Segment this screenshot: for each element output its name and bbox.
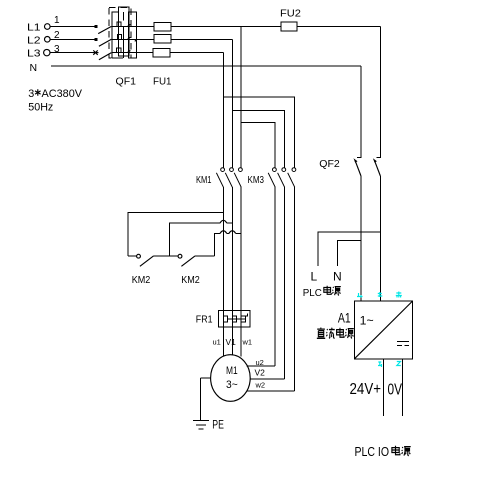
wire drop V2 (L2 phase)	[231, 39, 233, 167]
svg-text:KM3: KM3	[248, 174, 265, 186]
wire V3 branch to KM3 left pole	[241, 123, 275, 168]
svg-text:3: 3	[54, 44, 60, 55]
wire KM1 pole2 down to FR1	[231, 187, 233, 310]
node L1	[27, 22, 50, 34]
svg-text:1~: 1~	[360, 314, 374, 328]
svg-text:24V+: 24V+	[350, 381, 382, 398]
label PLC dian-yuan	[303, 286, 341, 299]
svg-text:50Hz: 50Hz	[28, 102, 53, 114]
svg-text:V1: V1	[226, 337, 237, 347]
svg-text:PLC IO: PLC IO	[355, 444, 390, 459]
contactor KM3 pole 2	[278, 168, 286, 187]
wire L3 to QF1	[50, 50, 99, 54]
wire FR1 pass-through	[223, 310, 241, 327]
motor M1	[211, 355, 251, 402]
cyan pin mark L top	[357, 293, 363, 298]
wire L1 row to FU2 and QF2	[171, 26, 380, 28]
svg-text:3: 3	[28, 88, 34, 100]
svg-text:u2: u2	[256, 358, 264, 367]
wire A1 out 24V	[382, 359, 384, 416]
wire L branch to PLC	[318, 232, 381, 266]
thermal relay FR1 box	[218, 310, 250, 326]
breaker QF2 pole L (N side)	[354, 66, 362, 301]
cyan pin mark N top	[378, 292, 383, 297]
svg-text:L: L	[311, 269, 318, 283]
svg-text:QF1: QF1	[116, 76, 137, 88]
node L3	[27, 48, 50, 60]
svg-text:u1: u1	[213, 338, 221, 347]
wire V1 branch to KM3 right pole	[223, 97, 294, 167]
svg-text:1: 1	[54, 15, 60, 26]
wire drop V3 (L1 phase)	[240, 27, 242, 168]
svg-text:w1: w1	[242, 338, 253, 347]
contactor KM1 pole 3	[234, 168, 242, 187]
wire FR1 to motor w1	[240, 327, 242, 357]
node L2	[27, 35, 50, 47]
svg-text:M1: M1	[226, 365, 238, 377]
svg-text:0V: 0V	[388, 382, 403, 399]
wire KM3 pole3 down to motor w2	[294, 187, 296, 391]
svg-text:w2: w2	[255, 381, 266, 390]
power supply A1 box	[354, 301, 412, 359]
wire N branch to PLC	[338, 240, 361, 266]
svg-text:KM1: KM1	[196, 174, 212, 186]
wire KM1 pole3 down to FR1	[240, 187, 242, 310]
contact KM2 left	[128, 254, 178, 266]
svg-text:L2: L2	[27, 35, 41, 47]
fuse FU1 pole 2	[154, 34, 171, 42]
wire motor v2	[250, 378, 285, 380]
wire A1 out 0V	[402, 359, 404, 416]
label PLC IO dian-yuan	[355, 444, 411, 459]
wire L2 row	[171, 38, 232, 40]
breaker QF1	[98, 7, 154, 60]
cyan pin mark 24V	[378, 362, 382, 367]
FR1 heater element 1	[223, 316, 227, 322]
wire L2 to QF1	[50, 38, 97, 41]
contactor KM3 pole 1	[268, 168, 276, 187]
svg-text:3~: 3~	[226, 379, 238, 391]
contactor KM1 pole 1	[216, 168, 224, 187]
wire KM3 pole1 down to motor u2	[274, 187, 276, 366]
wire motor w2	[247, 390, 295, 392]
FR1 heater element 3	[241, 316, 245, 322]
contactor KM1 pole 2	[225, 168, 233, 187]
svg-text:A1: A1	[338, 309, 351, 325]
svg-text:FU1: FU1	[153, 76, 172, 88]
wire FR1 to motor v1	[231, 327, 233, 355]
wire A KM2-left to V1	[128, 213, 223, 256]
svg-text:L3: L3	[27, 48, 41, 60]
svg-text:FR1: FR1	[196, 314, 213, 326]
wire KM1 pole1 down to FR1	[222, 187, 224, 310]
fuse FU1 pole 3	[153, 49, 170, 58]
svg-text:N: N	[333, 269, 342, 283]
wire drop V1 (L3 phase)	[222, 53, 224, 168]
fuse FU1 pole 1	[154, 23, 171, 31]
ground PE	[193, 421, 209, 430]
wire motor u2	[247, 365, 276, 367]
svg-text:N: N	[30, 62, 38, 74]
breaker QF2 pole L1	[373, 27, 381, 302]
wire C KM2-right to V3 with hops	[215, 234, 220, 256]
cyan pin mark PE top	[396, 292, 402, 298]
svg-text:QF2: QF2	[319, 158, 340, 170]
svg-text:FU2: FU2	[280, 7, 301, 19]
svg-text:L1: L1	[27, 22, 41, 34]
wire L1 to QF1	[50, 25, 97, 28]
svg-text:PE: PE	[212, 418, 224, 432]
wire motor PE	[201, 378, 211, 420]
svg-text:KM2: KM2	[132, 274, 151, 286]
contactor KM3 pole 3	[288, 168, 296, 187]
wire B KM2-middle node to V2 with hop	[170, 223, 220, 256]
wire KM3 pole2 down to motor v2	[284, 187, 286, 379]
svg-text:V2: V2	[255, 368, 266, 378]
wire V2 branch to KM3 middle pole	[232, 111, 284, 168]
svg-text:AC380V: AC380V	[42, 88, 83, 100]
FR1 element links	[228, 313, 248, 319]
wire FR1 to motor u1	[222, 327, 224, 357]
cyan pin mark 0V	[397, 362, 401, 366]
svg-text:KM2: KM2	[181, 274, 200, 286]
fuse FU2	[281, 22, 297, 31]
contact KM2 right	[178, 254, 214, 266]
label zhi-liu-dian-yuan	[317, 328, 354, 339]
wire N	[51, 65, 361, 67]
wire L3 row	[170, 52, 223, 54]
svg-text:PLC: PLC	[303, 287, 322, 299]
FR1 heater element 2	[232, 316, 236, 322]
